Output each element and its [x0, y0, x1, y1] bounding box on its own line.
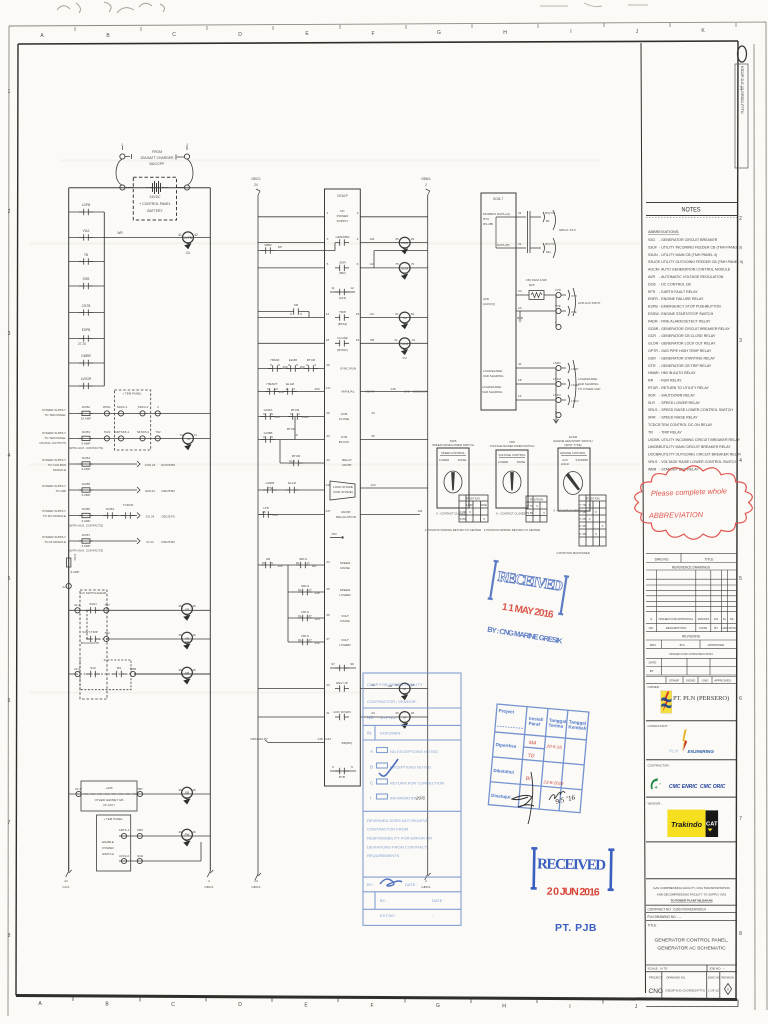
- svg-text:Kembali: Kembali: [568, 724, 586, 731]
- svg-text:- VOLTAGE RAISE LOWER CONTROL: - VOLTAGE RAISE LOWER CONTROL SWITCH: [659, 460, 738, 464]
- svg-text:2: 2: [555, 320, 557, 324]
- svg-text:147: 147: [325, 386, 330, 390]
- svg-text:RTUR: RTUR: [292, 454, 301, 458]
- svg-text:11: 11: [285, 387, 288, 391]
- svg-text:DCB5: DCB5: [82, 482, 90, 486]
- svg-text:148: 148: [317, 737, 322, 741]
- svg-text:APVD: APVD: [729, 626, 736, 630]
- svg-text:14: 14: [326, 312, 330, 316]
- svg-text:VOLTAGE RAISE/LOWER SWITCH: VOLTAGE RAISE/LOWER SWITCH: [490, 444, 535, 448]
- svg-text:G: G: [437, 30, 441, 36]
- svg-text:+LV SWITCHGEAR: +LV SWITCHGEAR: [80, 591, 107, 595]
- svg-text:DATA+(A): DATA+(A): [497, 212, 510, 216]
- svg-text:9: 9: [288, 363, 290, 367]
- svg-text:BLOCK: BLOCK: [339, 440, 350, 444]
- svg-text:6 AMP: 6 AMP: [82, 442, 91, 446]
- svg-text:ISSUED FOR APPROVAL: ISSUED FOR APPROVAL: [659, 617, 694, 621]
- svg-text:ESSW: ESSW: [648, 312, 659, 316]
- svg-text:GLOR: GLOR: [648, 342, 659, 346]
- svg-text:T02: T02: [155, 430, 161, 434]
- svg-text:GC: GC: [370, 312, 375, 316]
- svg-text:D86: D86: [137, 828, 143, 832]
- svg-text:Diketahui: Diketahui: [493, 768, 514, 775]
- svg-text:GB8: GB8: [130, 667, 136, 671]
- svg-text:H: H: [502, 1004, 506, 1010]
- svg-text:RR: RR: [648, 379, 654, 383]
- svg-text:Disetujui: Disetujui: [491, 793, 511, 800]
- svg-text:GBC/1: GBC/1: [421, 885, 431, 889]
- svg-text:37: 37: [308, 614, 312, 618]
- svg-text:LS2N: LS2N: [553, 393, 561, 397]
- svg-text:(VAR SHARE): (VAR SHARE): [333, 490, 353, 494]
- svg-text:KL: KL: [298, 614, 302, 618]
- svg-text:9: 9: [306, 363, 308, 367]
- svg-text:LGPB: LGPB: [82, 203, 91, 207]
- svg-text:7: 7: [8, 820, 11, 826]
- svg-text:X: X: [469, 510, 471, 514]
- svg-text:23-9-2016: 23-9-2016: [542, 779, 564, 786]
- svg-text:OWNER :: OWNER :: [648, 685, 661, 689]
- svg-text:GENERATOR AC SCHEMATIC: GENERATOR AC SCHEMATIC: [657, 946, 726, 952]
- svg-text:EFR: EFR: [648, 290, 656, 294]
- svg-text:MODULE: MODULE: [53, 468, 66, 472]
- svg-text:POWER SUPPLY: POWER SUPPLY: [42, 484, 66, 488]
- svg-text:2: 2: [8, 209, 11, 215]
- svg-text:- UTILITY MAIN CIRCUIT BREAKER: - UTILITY MAIN CIRCUIT BREAKER RELAY: [659, 445, 731, 449]
- svg-text:RAISE: RAISE: [340, 566, 349, 570]
- svg-text:AND DECOMPRESSING FACILITY TO: AND DECOMPRESSING FACILITY TO SUPPLY GAS: [657, 892, 727, 896]
- svg-text:LWR: LWR: [466, 503, 472, 507]
- svg-text:RTU: RTU: [483, 217, 489, 221]
- svg-text:VGA: VGA: [83, 229, 91, 233]
- svg-text:CHKD: CHKD: [721, 626, 728, 630]
- svg-text:TS: TS: [268, 486, 272, 490]
- svg-text:SDR: SDR: [339, 261, 346, 265]
- svg-text:WR: WR: [117, 231, 123, 235]
- svg-text:GTR: GTR: [648, 364, 656, 368]
- svg-text:- GENERATOR LOCK OUT RELAY: - GENERATOR LOCK OUT RELAY: [659, 342, 716, 346]
- svg-text:B: B: [106, 33, 110, 39]
- svg-text:DATE :: DATE :: [432, 898, 445, 903]
- svg-text:ENJINIRING: ENJINIRING: [688, 749, 715, 754]
- svg-text:POWER SUPPLY: POWER SUPPLY: [42, 509, 66, 513]
- svg-text:B1: B1: [546, 219, 550, 223]
- svg-text:150A: 150A: [301, 415, 309, 419]
- svg-text:VOLT: VOLT: [341, 638, 349, 642]
- svg-text:GB: GB: [185, 608, 189, 612]
- svg-text:26: 26: [326, 363, 330, 367]
- svg-text:J: J: [186, 143, 188, 147]
- svg-text:41: 41: [178, 233, 182, 237]
- svg-text:2: 2: [739, 216, 742, 222]
- svg-text:27 20: 27 20: [78, 342, 86, 346]
- svg-text:47 48: 47 48: [579, 532, 586, 536]
- svg-text:43: 43: [326, 683, 330, 687]
- svg-text:GC/1: GC/1: [62, 885, 69, 889]
- svg-text:K: K: [701, 28, 705, 34]
- svg-text:24.2: 24.2: [74, 667, 80, 671]
- svg-text:LS2P: LS2P: [571, 367, 578, 371]
- svg-text:CMC ENRIC: CMC ENRIC: [669, 784, 698, 790]
- svg-text:TB2: TB2: [104, 631, 110, 635]
- svg-text:(WITH AUX. CONTACTS): (WITH AUX. CONTACTS): [69, 446, 103, 450]
- svg-text:DCB3: DCB3: [82, 430, 90, 434]
- svg-text:GBC/2: 04-5: GBC/2: 04-5: [559, 228, 576, 232]
- svg-text:B: B: [370, 765, 373, 770]
- svg-text:STAMP: STAMP: [669, 679, 679, 683]
- svg-text:24: 24: [254, 879, 258, 883]
- svg-text:GO: GO: [370, 262, 375, 266]
- svg-text:GSR: GSR: [648, 356, 656, 360]
- svg-text:DOKUMEN :: DOKUMEN :: [380, 731, 403, 736]
- svg-text:DATA-(B): DATA-(B): [497, 243, 510, 247]
- svg-text:37 38: 37 38: [579, 524, 586, 528]
- svg-text:X: X: [483, 517, 485, 521]
- svg-text:GCB: GCB: [401, 342, 408, 346]
- svg-text:I: I: [370, 796, 371, 801]
- svg-text:6 AMP: 6 AMP: [82, 544, 91, 548]
- svg-text:TO CAN BUS: TO CAN BUS: [48, 463, 66, 467]
- svg-text:+ TEM PANEL: + TEM PANEL: [122, 392, 142, 396]
- svg-text:DCB7: DCB7: [82, 533, 90, 537]
- svg-text:GMBR: GMBR: [81, 354, 91, 358]
- svg-text:2: 2: [425, 879, 427, 883]
- svg-text:POWER SUPPLY: POWER SUPPLY: [42, 431, 66, 435]
- svg-text:DATE: DATE: [699, 626, 707, 630]
- svg-text:ABBREVIATION: ABBREVIATION: [648, 510, 704, 520]
- svg-text:5: 5: [332, 765, 334, 769]
- svg-text:CONTRACTOR FROM: CONTRACTOR FROM: [367, 827, 408, 832]
- svg-text:- ENGINE FAILURE RELAY: - ENGINE FAILURE RELAY: [659, 297, 704, 301]
- svg-text:TB: TB: [186, 437, 190, 441]
- svg-text:POWER SUPPLY: POWER SUPPLY: [42, 535, 66, 539]
- svg-text:TB7: TB7: [137, 787, 143, 791]
- svg-text:DCB4: DCB4: [106, 507, 114, 511]
- svg-text:MS: MS: [117, 666, 122, 670]
- svg-text:PL: PL: [262, 561, 266, 565]
- svg-text:SR: SR: [294, 303, 299, 307]
- svg-text:- UTILITY INCOMING FEEDER CB (: - UTILITY INCOMING FEEDER CB (TMH PANEL …: [659, 245, 742, 249]
- svg-text:19: 19: [356, 338, 360, 342]
- svg-text:18: 18: [326, 338, 330, 342]
- svg-text:6: 6: [271, 435, 273, 439]
- svg-text:K2: K2: [518, 289, 522, 293]
- svg-text:GEN/DBS: GEN/DBS: [336, 235, 350, 239]
- svg-text:1 POSITION MAINTAINED: 1 POSITION MAINTAINED: [556, 551, 590, 555]
- svg-text:- UTILITY INCOMING CIRCUIT BRE: - UTILITY INCOMING CIRCUIT BREAKER RELAY: [659, 438, 741, 442]
- svg-text:V7E: V7E: [571, 310, 577, 314]
- svg-text:TO HMI: TO HMI: [56, 489, 67, 493]
- svg-text:1: 1: [8, 89, 11, 95]
- svg-text:BY: BY: [650, 669, 654, 673]
- svg-text:CMC ORIC: CMC ORIC: [700, 784, 726, 790]
- svg-text:NO.: NO.: [649, 626, 655, 630]
- svg-text:- GENERATOR CB TRIP RELAY: - GENERATOR CB TRIP RELAY: [659, 364, 712, 368]
- svg-text:CU: CU: [186, 251, 191, 255]
- svg-text:+ TEM PANEL: + TEM PANEL: [103, 817, 123, 821]
- svg-text:17: 17: [306, 561, 310, 565]
- svg-text:POWER SUPPLY: POWER SUPPLY: [42, 408, 66, 412]
- svg-text:5: 5: [296, 363, 298, 367]
- svg-text:Trakindo: Trakindo: [671, 820, 703, 829]
- svg-text:R25: R25: [529, 283, 535, 287]
- svg-text:45: 45: [395, 237, 399, 241]
- svg-text:- SPEED LOWER RELAY: - SPEED LOWER RELAY: [659, 401, 701, 405]
- svg-text:- GENERATOR CIRCUIT BREAKER RE: - GENERATOR CIRCUIT BREAKER RELAY: [659, 327, 730, 331]
- svg-text:+ CONTROL PANEL: + CONTROL PANEL: [139, 202, 170, 206]
- svg-text:POSITION: POSITION: [530, 498, 543, 502]
- svg-text:LOADSHARE/: LOADSHARE/: [483, 369, 503, 373]
- svg-text:CONSULTANT :: CONSULTANT :: [648, 724, 670, 728]
- svg-text:9: 9: [290, 312, 292, 316]
- svg-text:CG&P FOR GRESIK FACILITY: CG&P FOR GRESIK FACILITY: [367, 682, 423, 687]
- svg-text:VAR SHARING: VAR SHARING: [483, 374, 504, 378]
- svg-text:RX(TX): RX(TX): [545, 242, 555, 246]
- svg-text:154: 154: [331, 532, 336, 536]
- svg-text:16: 16: [294, 433, 298, 437]
- svg-text:4: 4: [357, 237, 359, 241]
- svg-text:VENDOR :: VENDOR :: [648, 802, 663, 806]
- svg-text:A: A: [370, 749, 374, 754]
- svg-text:EXT.NO: EXT.NO: [380, 913, 394, 918]
- svg-text:RELAY: RELAY: [342, 458, 352, 462]
- svg-text:MAINT: MAINT: [341, 510, 351, 514]
- svg-text:GND: GND: [702, 679, 710, 683]
- svg-text:LVSGR: LVSGR: [81, 377, 92, 381]
- svg-text:- AUTO GENERATION CONTROL MODU: - AUTO GENERATION CONTROL MODULE: [659, 268, 731, 272]
- svg-text:DL: DL: [298, 638, 302, 642]
- svg-text:RS(TX): RS(TX): [545, 211, 555, 215]
- svg-text:DC: DC: [340, 209, 345, 213]
- svg-text:15: 15: [356, 312, 360, 316]
- svg-text:45: 45: [178, 788, 182, 792]
- svg-text:(A13): (A13): [339, 296, 347, 300]
- svg-text:DP: DP: [278, 245, 282, 249]
- svg-text:11: 11: [331, 286, 334, 290]
- svg-text:3 POSITION SPRING RETURN TO CE: 3 POSITION SPRING RETURN TO CENTER: [425, 528, 481, 532]
- svg-text:5: 5: [278, 363, 280, 367]
- svg-text:45: 45: [178, 633, 182, 637]
- svg-text:76: 76: [411, 262, 415, 266]
- svg-text:KL3: KL3: [289, 459, 295, 463]
- svg-text:77 78: 77 78: [526, 504, 533, 508]
- svg-text:E: E: [305, 31, 309, 37]
- svg-text:(WITH AUX. CONTACTS): (WITH AUX. CONTACTS): [69, 524, 103, 528]
- svg-text:GCB: GCB: [341, 412, 348, 416]
- svg-text:L5: L5: [262, 510, 266, 514]
- svg-text:GCM-P: GCM-P: [337, 194, 348, 198]
- svg-text:GCM-7: GCM-7: [493, 197, 503, 201]
- svg-text:8: 8: [8, 933, 11, 939]
- svg-text:5 AMP: 5 AMP: [71, 570, 80, 574]
- svg-text:MANUAL: MANUAL: [342, 390, 355, 394]
- svg-text:15/04/16: 15/04/16: [697, 617, 709, 621]
- svg-text:EXCEPTIONS NOTED: EXCEPTIONS NOTED: [390, 765, 431, 770]
- svg-text:C: C: [171, 1002, 175, 1008]
- svg-text:GBC/5:F5: GBC/5:F5: [161, 515, 175, 519]
- svg-text:- UTILITY OUTGOING CIRCUIT BRE: - UTILITY OUTGOING CIRCUIT BREAKER RELAY: [659, 453, 742, 457]
- svg-text:POWER SUPPLY: POWER SUPPLY: [42, 458, 66, 462]
- svg-text:5: 5: [327, 262, 329, 266]
- svg-text:DATE: DATE: [649, 661, 657, 665]
- svg-text:DL: DL: [296, 561, 300, 565]
- svg-text:GBC/5:B2: GBC/5:B2: [161, 540, 175, 544]
- svg-text:RTUR: RTUR: [307, 358, 316, 362]
- svg-text:DL: DL: [298, 588, 302, 592]
- svg-text:REQUIREMENTS: REQUIREMENTS: [367, 853, 400, 858]
- svg-text:DA: DA: [714, 617, 718, 621]
- svg-text:BY :: BY :: [367, 882, 375, 887]
- svg-text:SWITCH: SWITCH: [102, 852, 114, 856]
- svg-text:REGULATION: REGULATION: [336, 515, 356, 519]
- svg-text:RAISE: RAISE: [340, 619, 349, 623]
- svg-text:DCB6: DCB6: [82, 507, 90, 511]
- svg-text:VOLTAGE CONTROL: VOLTAGE CONTROL: [498, 453, 526, 457]
- svg-text:S3H: S3H: [137, 854, 143, 858]
- svg-text:RS-485: RS-485: [483, 222, 494, 226]
- svg-text:ID 24: ID 24: [146, 540, 154, 544]
- svg-text:LMDR: LMDR: [266, 481, 276, 485]
- svg-text:27: 27: [308, 638, 312, 642]
- svg-text:SDR: SDR: [648, 393, 656, 397]
- svg-text:29: 29: [326, 411, 330, 415]
- svg-text:V7D: V7D: [555, 288, 562, 292]
- svg-text:- SHUTDOWN RELAY: - SHUTDOWN RELAY: [659, 393, 695, 397]
- svg-text:WDR: WDR: [401, 241, 409, 245]
- svg-text:1 1 MAY 2016: 1 1 MAY 2016: [501, 602, 555, 621]
- svg-text:CLOSE: CLOSE: [339, 417, 350, 421]
- svg-text:20-5-16: 20-5-16: [545, 743, 562, 749]
- svg-text:6 AMP: 6 AMP: [82, 493, 91, 497]
- svg-text:GBC/1: GBC/1: [204, 885, 213, 889]
- svg-text:149: 149: [390, 387, 395, 391]
- svg-text:6 AMP: 6 AMP: [82, 467, 91, 471]
- svg-text:?: ?: [659, 782, 661, 786]
- svg-text:LS2D: LS2D: [553, 361, 561, 365]
- svg-text:V7D: V7D: [571, 294, 578, 298]
- svg-text:HOLD: HOLD: [561, 462, 569, 466]
- svg-text:UICBR: UICBR: [648, 438, 660, 442]
- svg-text:36: 36: [371, 434, 375, 438]
- svg-text:79 80: 79 80: [526, 511, 533, 515]
- svg-text:24: 24: [62, 585, 66, 589]
- svg-text:1B: 1B: [518, 378, 522, 382]
- svg-text:STANDBY: STANDBY: [575, 458, 588, 462]
- svg-text:GR: GR: [370, 237, 375, 241]
- svg-text:X: X: [595, 510, 597, 514]
- svg-text:GOV DOWN: GOV DOWN: [333, 710, 351, 714]
- svg-text:ISSUED FOR CONSTRUCTION: ISSUED FOR CONSTRUCTION: [669, 652, 712, 656]
- svg-text:S3G: S3G: [648, 238, 655, 242]
- svg-text:MA: MA: [529, 740, 538, 747]
- svg-text:GBC/1: GBC/1: [251, 177, 261, 181]
- svg-text:6: 6: [739, 696, 742, 702]
- svg-text:S3U: S3U: [90, 666, 96, 670]
- svg-text:RTUR: RTUR: [648, 386, 658, 390]
- svg-text:77 78: 77 78: [579, 503, 586, 507]
- svg-text:SIGND: SIGND: [686, 679, 696, 683]
- svg-text:(BTA2): (BTA2): [338, 322, 348, 326]
- svg-text:TR: TR: [648, 430, 653, 434]
- svg-text:(WITH AUX. CONTACTS): (WITH AUX. CONTACTS): [69, 549, 103, 553]
- svg-text:41: 41: [394, 338, 398, 342]
- svg-text:12: 12: [350, 286, 354, 290]
- svg-text:POSITION: POSITION: [586, 497, 599, 501]
- svg-text:X - CONTACT CLOSED: X - CONTACT CLOSED: [496, 512, 526, 516]
- svg-text:24: 24: [254, 183, 258, 187]
- svg-text:RD: RD: [312, 564, 317, 568]
- svg-text:MAINT: MAINT: [342, 463, 352, 467]
- svg-text:CONTRACTOR :: CONTRACTOR :: [648, 764, 671, 768]
- svg-text:DCB: DCB: [648, 282, 656, 286]
- svg-text:E: E: [304, 1003, 308, 1009]
- svg-text:34: 34: [371, 411, 375, 415]
- svg-text:SRLS: SRLS: [648, 408, 658, 412]
- svg-text:ENFR: ENFR: [648, 297, 658, 301]
- svg-text:150: 150: [274, 415, 279, 419]
- svg-text:24: 24: [518, 211, 522, 215]
- svg-text:PT. PLN (PERSERO): PT. PLN (PERSERO): [673, 695, 729, 702]
- svg-text:SPEED RAISE/LOWER SWITCH: SPEED RAISE/LOWER SWITCH: [432, 443, 474, 447]
- svg-text:X: X: [595, 532, 597, 536]
- svg-text:- TEM CONTROL DC ON RELAY: - TEM CONTROL DC ON RELAY: [659, 423, 713, 427]
- svg-text:DWG NO: DWG NO: [708, 976, 721, 980]
- svg-text:X - DO NOT CLOSED: X - DO NOT CLOSED: [553, 509, 580, 513]
- svg-text:D: D: [238, 1002, 242, 1008]
- svg-text:DCB4: DCB4: [82, 456, 90, 460]
- svg-text:SDK3-2: SDK3-2: [138, 405, 149, 409]
- svg-text:MH: MH: [546, 250, 551, 254]
- svg-text:DL: DL: [730, 617, 734, 621]
- svg-text:RECEIVED: RECEIVED: [496, 569, 564, 595]
- svg-text:(BR): (BR): [339, 271, 345, 275]
- svg-text:35: 35: [326, 587, 330, 591]
- svg-text:TO TEM PANEL: TO TEM PANEL: [44, 436, 66, 440]
- svg-text:CU: CU: [402, 356, 406, 360]
- svg-text:+S25: +S25: [105, 786, 112, 790]
- svg-text:IN: IN: [367, 731, 371, 736]
- svg-text:DIGITAL OUTPUTS: DIGITAL OUTPUTS: [39, 441, 66, 445]
- svg-text:BY : CNG MARINE GRESIK: BY : CNG MARINE GRESIK: [487, 625, 564, 646]
- svg-text:- GAS PIPE HIGH TEMP RELAY: - GAS PIPE HIGH TEMP RELAY: [659, 349, 712, 353]
- svg-text:F: F: [370, 1003, 373, 1009]
- svg-text:1 OF 12: 1 OF 12: [708, 989, 719, 993]
- svg-text:LOAD SHARE: LOAD SHARE: [333, 485, 353, 489]
- svg-text:137: 137: [325, 509, 330, 513]
- svg-text:REVISIONS: REVISIONS: [682, 635, 701, 639]
- svg-text:RTUR: RTUR: [287, 427, 296, 431]
- svg-text:BATTERY: BATTERY: [147, 209, 163, 213]
- svg-text:HMAR: HMAR: [365, 390, 375, 394]
- svg-text:NOTES: NOTES: [682, 207, 701, 213]
- svg-text:WBR: WBR: [264, 243, 272, 247]
- svg-text:C: C: [370, 781, 374, 786]
- svg-text:S3UN: S3UN: [648, 253, 658, 257]
- svg-text:- FIRE ALARM DETECT RELAY: - FIRE ALARM DETECT RELAY: [659, 319, 711, 323]
- svg-text:TO OTHER CEP: TO OTHER CEP: [578, 387, 600, 391]
- svg-text:RAISE: RAISE: [517, 460, 526, 464]
- svg-text:4: 4: [314, 363, 316, 367]
- svg-text:TITLE: TITLE: [705, 558, 715, 562]
- svg-text:- GENERATOR CB CLOSE RELAY: - GENERATOR CB CLOSE RELAY: [659, 334, 716, 338]
- svg-text:5: 5: [8, 576, 11, 582]
- svg-text:K3D2P-D-E-13-GR3D2-P7TU: K3D2P-D-E-13-GR3D2-P7TU: [666, 989, 706, 993]
- svg-text:BY :: BY :: [380, 898, 388, 903]
- svg-text:41: 41: [326, 711, 330, 715]
- svg-text:SCALE : N.TS: SCALE : N.TS: [648, 967, 668, 971]
- svg-text:6: 6: [8, 698, 11, 704]
- svg-text:REV: REV: [650, 643, 656, 647]
